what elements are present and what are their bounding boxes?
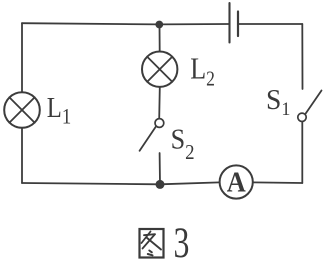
node top junction xyxy=(155,21,163,29)
wire middle branch (lamp L2 to switch S2) xyxy=(158,87,161,119)
wire top segment (node to battery) xyxy=(159,23,228,25)
wire right lower segment (S1 to bottom-right corner) xyxy=(301,122,303,183)
wire bottom-left segment (node to bottom-left corner) xyxy=(22,183,160,184)
wire middle branch upper (node to lamp L2) xyxy=(159,25,161,52)
battery long plate xyxy=(228,3,230,43)
svg-text:3: 3 xyxy=(174,219,190,262)
wire bottom-right segment (corner to ammeter) xyxy=(253,181,302,184)
lamp L2 circle xyxy=(142,51,177,86)
switch S2 blade xyxy=(140,126,156,150)
caption character tu (figure) drawn as strokes xyxy=(140,229,164,258)
wire bottom segment (ammeter to node) xyxy=(160,182,220,184)
switch S1 blade xyxy=(306,91,322,114)
switch S1 pivot circle xyxy=(298,113,306,121)
lamp L2 cross stroke 2 xyxy=(147,57,172,82)
switch S2 pivot circle xyxy=(155,119,164,128)
wire left upper segment (lamp L1 to top-left corner) xyxy=(21,23,23,92)
wire left lower segment (corner up to lamp L1) xyxy=(21,128,23,183)
wire right upper segment (corner down to switch S1 gap) xyxy=(301,24,303,89)
lamp L1 circle xyxy=(4,92,40,128)
wire top-left segment (top-left corner to node) xyxy=(22,23,159,24)
ammeter A1 circle xyxy=(220,165,253,198)
svg-text:L1: L1 xyxy=(47,91,71,129)
lamp L1 cross stroke 1 xyxy=(9,97,34,122)
wire top-right segment (battery to corner) xyxy=(239,23,302,25)
svg-text:A: A xyxy=(227,167,246,198)
battery short plate xyxy=(237,12,239,37)
svg-text:L2: L2 xyxy=(190,51,215,90)
svg-text:S1: S1 xyxy=(266,84,290,120)
lamp L1 cross stroke 2 xyxy=(9,97,34,122)
svg-text:S2: S2 xyxy=(171,122,195,164)
node bottom junction xyxy=(156,180,165,189)
wire middle branch lower (S2 stub to node) xyxy=(159,153,161,184)
lamp L2 cross stroke 1 xyxy=(147,57,172,82)
